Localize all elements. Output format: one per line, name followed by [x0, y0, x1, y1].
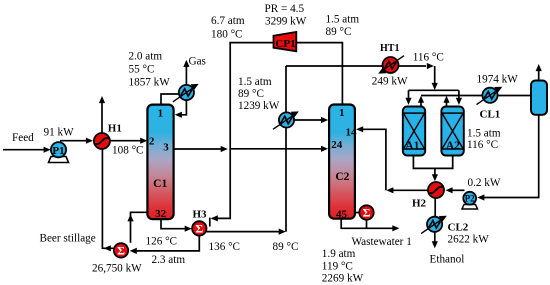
svg-text:P2: P2 — [465, 194, 475, 204]
svg-text:3299 kW: 3299 kW — [265, 16, 307, 28]
wire manifold out (bottom) to CL1 — [421, 95, 483, 97]
wire manifold in (top) — [409, 89, 459, 91]
heat exchanger 1239kW — [273, 111, 299, 129]
svg-text:A1: A1 — [405, 140, 419, 152]
svg-text:2.0 atm: 2.0 atm — [129, 51, 163, 63]
heat exchanger HT1 — [378, 56, 404, 74]
svg-text:91 kW: 91 kW — [44, 127, 75, 139]
wire drum vent — [538, 69, 540, 80]
wire beer stillage up arrow — [101, 99, 103, 133]
wire C1 top to condenser — [161, 94, 180, 104]
svg-text:CL1: CL1 — [480, 109, 501, 121]
svg-text:136 °C: 136 °C — [209, 241, 241, 253]
svg-text:2622 kW: 2622 kW — [448, 234, 490, 246]
svg-text:116 °C: 116 °C — [467, 139, 498, 151]
svg-text:1974 kW: 1974 kW — [477, 74, 519, 86]
wire H1 down to reboiler outlet corner — [102, 149, 113, 248]
heat exchanger H1 — [94, 133, 110, 149]
svg-text:Gas: Gas — [189, 56, 206, 68]
pump P2 — [462, 192, 478, 209]
wire H1 to C1 tray 2 — [110, 140, 142, 142]
svg-text:249 kW: 249 kW — [372, 76, 408, 88]
wire B1 vapor return to C1 — [131, 212, 147, 243]
wire P2 to H2 — [451, 189, 465, 191]
wire CL2 to Ethanol out — [434, 233, 436, 243]
svg-text:1: 1 — [158, 108, 164, 120]
svg-text:14: 14 — [346, 126, 358, 138]
svg-text:3: 3 — [163, 142, 169, 154]
svg-text:89 °C: 89 °C — [273, 241, 299, 253]
heat exchanger H2 — [428, 182, 444, 198]
svg-text:1: 1 — [339, 107, 345, 119]
reboiler B1 — [114, 243, 128, 257]
column C1 — [147, 105, 173, 220]
svg-text:Feed: Feed — [12, 132, 34, 144]
svg-text:C2: C2 — [335, 171, 349, 183]
wire C1 bottoms to H3 — [161, 219, 186, 229]
wire H3 right to riser — [207, 231, 280, 233]
wire C2 bottoms wastewater — [341, 219, 393, 229]
svg-text:26,750 kW: 26,750 kW — [92, 263, 142, 275]
cooler CL2 — [421, 216, 447, 234]
wire HT1 to adsorber feed — [398, 65, 426, 67]
svg-text:PR = 4.5: PR = 4.5 — [265, 3, 305, 15]
cooler CL1 — [477, 87, 503, 105]
wire: feed line — [3, 149, 45, 151]
svg-text:1.5 atm: 1.5 atm — [326, 14, 360, 26]
wire down into manifold — [434, 66, 436, 84]
wire P1 to H1 — [60, 140, 86, 142]
svg-text:P1: P1 — [52, 145, 64, 157]
svg-text:H1: H1 — [108, 123, 122, 135]
wire riser x286 vertical — [285, 66, 287, 232]
pump P1 — [49, 142, 69, 162]
svg-text:89 °C: 89 °C — [238, 88, 264, 100]
svg-text:0.2 kW: 0.2 kW — [468, 177, 501, 189]
svg-text:CP1: CP1 — [275, 38, 295, 50]
wire riser top to HT1 — [286, 65, 382, 67]
svg-text:C1: C1 — [153, 178, 167, 190]
svg-text:116 °C: 116 °C — [413, 51, 444, 63]
wire condenser reflux to C1 — [177, 101, 186, 115]
svg-text:1857 kW: 1857 kW — [129, 77, 171, 89]
svg-text:CL2: CL2 — [448, 222, 469, 234]
svg-text:HT1: HT1 — [380, 43, 399, 54]
adsorber A2 — [441, 107, 463, 156]
svg-text:H2: H2 — [412, 198, 427, 210]
flash drum — [531, 81, 547, 115]
wire HX to C2 tray1 — [294, 119, 322, 121]
svg-text:180 °C: 180 °C — [211, 29, 243, 41]
wire H2 recycle to C2 tray 14 — [392, 189, 429, 191]
svg-text:1.9 atm: 1.9 atm — [322, 248, 356, 260]
condenser (gas cooler) — [173, 84, 199, 102]
reboiler B2 — [355, 212, 360, 214]
svg-text:Beer stillage: Beer stillage — [40, 233, 96, 245]
svg-text:2: 2 — [149, 136, 155, 148]
heat exchanger H3 — [192, 221, 206, 235]
svg-text:24: 24 — [331, 139, 343, 151]
svg-text:1.5 atm: 1.5 atm — [467, 128, 501, 140]
svg-text:108 °C: 108 °C — [112, 145, 144, 157]
svg-text:2269 kW: 2269 kW — [322, 273, 364, 285]
wire C1 tray3 to junction — [173, 148, 222, 150]
svg-text:1239 kW: 1239 kW — [238, 100, 280, 112]
svg-text:55 °C: 55 °C — [129, 64, 155, 76]
wire H2 to CL2 — [434, 199, 436, 217]
wire drum bottoms to P2 — [483, 115, 539, 198]
svg-text:6.7 atm: 6.7 atm — [211, 15, 245, 27]
svg-text:32: 32 — [155, 208, 167, 220]
svg-text:A2: A2 — [446, 140, 460, 152]
wire CP1 discharge down to H3 — [212, 43, 274, 219]
wire A1 A2 bottoms join to H2 — [413, 156, 452, 169]
svg-text:2.3 atm: 2.3 atm — [152, 254, 186, 266]
column C2 — [329, 105, 355, 219]
svg-text:126 °C: 126 °C — [146, 236, 178, 248]
wire CL1 to flash drum — [498, 95, 532, 97]
compressor CP1 — [274, 32, 297, 51]
svg-text:Wastewater 1: Wastewater 1 — [352, 236, 412, 248]
wire condenser to Gas arrow — [185, 63, 187, 85]
svg-text:119 °C: 119 °C — [322, 261, 353, 273]
wire junction to C2 tray 24 — [230, 148, 322, 150]
svg-text:Ethanol: Ethanol — [430, 254, 465, 266]
wire H3 bottom to reboiler B1 — [136, 236, 200, 251]
wire C2 top vapor to CP1 — [297, 43, 343, 104]
svg-text:1.5 atm: 1.5 atm — [238, 76, 272, 88]
svg-text:89 °C: 89 °C — [326, 26, 352, 38]
adsorber A1 — [403, 107, 425, 156]
svg-text:H3: H3 — [193, 209, 208, 221]
